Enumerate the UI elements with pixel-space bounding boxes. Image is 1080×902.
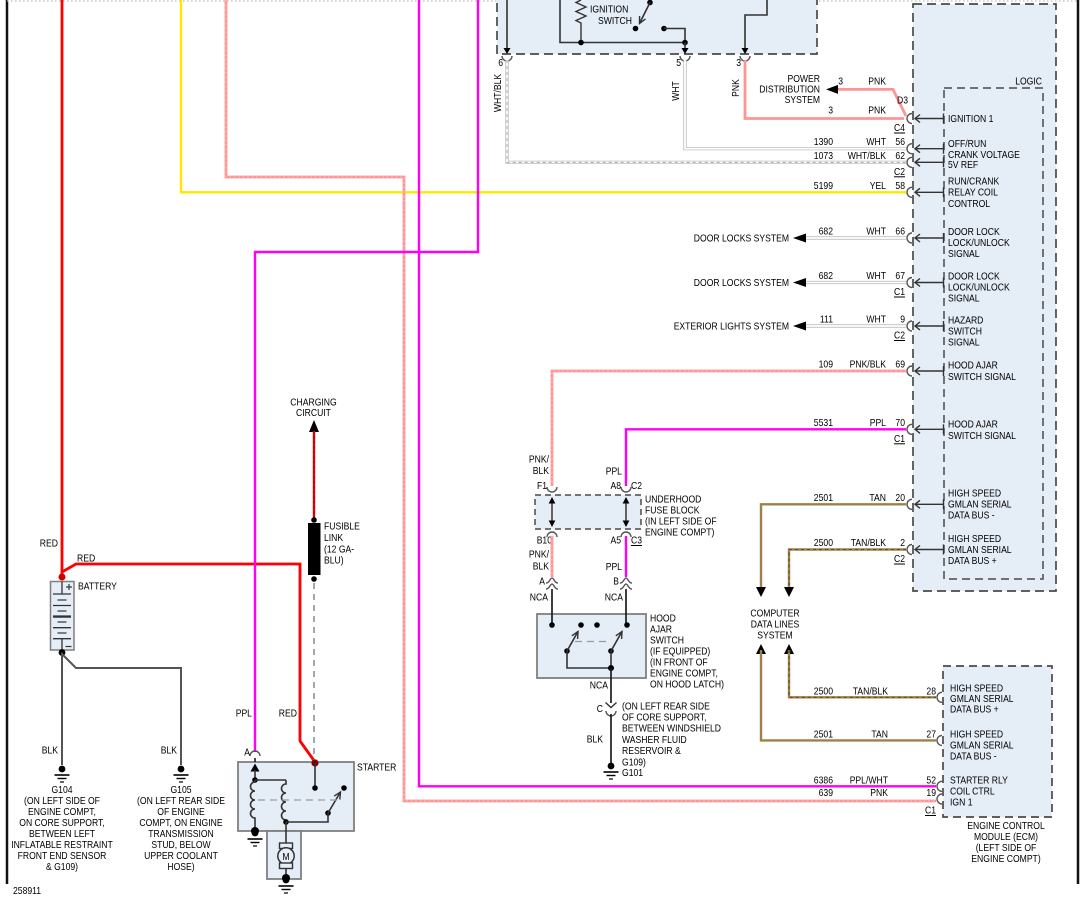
ECM pin 28 connector xyxy=(937,692,942,702)
battery box xyxy=(51,582,75,651)
wire YEL run/crank relay coil control 5199 xyxy=(181,0,906,192)
wire solenoid top to hold-in coil xyxy=(255,779,286,781)
wire TAN 2501 gmlan row 20 xyxy=(761,504,906,588)
node starter solenoid top junction xyxy=(252,777,258,783)
svg-text:M: M xyxy=(282,851,289,863)
wire RED/BLK to fusible link xyxy=(313,431,315,519)
svg-text:G101: G101 xyxy=(622,767,643,779)
arrow DOOR LOCKS SYSTEM row 67 xyxy=(793,278,806,287)
ground starter motor xyxy=(283,877,290,884)
wire WHT 682 door lock row 67 xyxy=(806,281,906,284)
wire NCA hood switch to connector C xyxy=(610,668,612,703)
svg-text:C1: C1 xyxy=(894,433,905,445)
svg-text:SIGNAL: SIGNAL xyxy=(948,248,980,260)
svg-text:F1: F1 xyxy=(537,480,547,492)
node hood switch common junction xyxy=(608,665,614,671)
svg-text:WHT: WHT xyxy=(866,314,886,326)
wire PPL 5531 hood ajar row 70 xyxy=(626,429,906,486)
svg-text:C2: C2 xyxy=(894,166,905,178)
svg-text:HOOD AJAR: HOOD AJAR xyxy=(948,419,998,431)
BCM pin 56 OFF/RUN xyxy=(907,144,912,154)
svg-text:G109): G109) xyxy=(622,757,646,769)
svg-text:BLK: BLK xyxy=(42,745,58,757)
arrow to POWER DISTRIBUTION SYSTEM xyxy=(826,85,838,94)
node starter battery junction xyxy=(311,759,318,766)
svg-text:C2: C2 xyxy=(631,480,642,492)
fuse block pin A8 C2 connector xyxy=(621,487,631,492)
node starter switch upper contact xyxy=(341,785,347,791)
starter box xyxy=(238,762,354,831)
underhood fuse block box xyxy=(535,495,641,529)
svg-text:C1: C1 xyxy=(894,286,905,298)
battery negative sign xyxy=(66,646,72,648)
svg-text:WHT: WHT xyxy=(866,136,886,148)
node starter switch feed contact xyxy=(312,785,318,791)
svg-text:RESERVOIR &: RESERVOIR & xyxy=(622,745,681,757)
svg-text:TAN/BLK: TAN/BLK xyxy=(853,685,888,697)
node battery negative terminal xyxy=(59,649,66,656)
BCM pin 58 RUN/CRANK relay xyxy=(907,187,912,197)
svg-text:EXTERIOR LIGHTS SYSTEM: EXTERIOR LIGHTS SYSTEM xyxy=(674,321,789,333)
starter switch blade to common xyxy=(286,813,328,822)
svg-text:3: 3 xyxy=(736,57,741,69)
svg-text:WHT/BLK: WHT/BLK xyxy=(492,74,504,112)
hood switch blade right xyxy=(608,648,614,654)
svg-text:STARTER: STARTER xyxy=(357,762,397,774)
BCM pin C4 IGNITION 1 connector xyxy=(907,114,912,124)
inline connector A hood switch xyxy=(546,578,558,583)
ground starter solenoid xyxy=(252,830,259,837)
fuse block pass-through arrow right xyxy=(625,501,627,523)
svg-text:ON HOOD LATCH): ON HOOD LATCH) xyxy=(650,679,724,691)
svg-text:NCA: NCA xyxy=(530,592,548,604)
svg-text:BLK: BLK xyxy=(587,734,603,746)
wire PNK circuit 3 from pin3 xyxy=(745,60,904,119)
hood switch blade left xyxy=(564,648,570,654)
svg-text:C4: C4 xyxy=(894,122,905,134)
svg-text:C2: C2 xyxy=(894,553,905,565)
svg-text:1073: 1073 xyxy=(814,150,833,162)
svg-text:DATA BUS -: DATA BUS - xyxy=(948,510,995,522)
BCM pin 66 DOOR LOCK xyxy=(907,233,912,243)
resistor ignition key-in resistor xyxy=(576,0,586,43)
svg-text:20: 20 xyxy=(895,492,905,504)
drawing frame top border xyxy=(7,0,1078,2)
BCM pin 70 HOOD AJAR C1 xyxy=(907,424,912,434)
ignition switch feed wire pin6 internal xyxy=(506,0,508,49)
svg-text:WHT: WHT xyxy=(866,226,886,238)
ECM pin 52 connector xyxy=(937,781,942,791)
svg-text:NCA: NCA xyxy=(605,592,623,604)
svg-text:TAN/BLK: TAN/BLK xyxy=(851,537,886,549)
svg-text:2500: 2500 xyxy=(814,685,833,697)
svg-text:RED: RED xyxy=(40,538,59,550)
node hood switch contact 2 xyxy=(578,622,584,628)
svg-text:2: 2 xyxy=(900,537,905,549)
svg-text:BLK: BLK xyxy=(533,465,549,477)
arrow EXTERIOR LIGHTS SYSTEM xyxy=(793,322,806,331)
wire PNK/BLK below fuse block xyxy=(551,536,554,577)
starter switch blade xyxy=(325,810,331,816)
wire PNK branch to power distribution xyxy=(832,89,906,116)
svg-text:BETWEEN WINDSHIELD: BETWEEN WINDSHIELD xyxy=(622,723,721,735)
arrow to charging circuit xyxy=(309,420,319,432)
BCM body control module box xyxy=(913,4,1056,591)
wire NCA to hood switch A xyxy=(551,589,553,625)
hood ajar switch box xyxy=(537,614,646,678)
wire TAN 2501 to ECM pin 27 xyxy=(761,650,936,740)
svg-text:6: 6 xyxy=(498,57,503,69)
svg-text:52: 52 xyxy=(926,774,936,786)
ground G101 xyxy=(608,763,615,770)
svg-text:682: 682 xyxy=(819,270,834,282)
svg-text:TAN: TAN xyxy=(871,728,888,740)
ignition switch module box xyxy=(497,0,817,54)
ignition switch left feed wire xyxy=(560,0,685,43)
svg-text:A: A xyxy=(244,747,250,759)
svg-text:PNK/: PNK/ xyxy=(529,454,549,466)
pin 6 connector xyxy=(502,56,512,61)
svg-text:C3: C3 xyxy=(631,535,642,547)
svg-text:67: 67 xyxy=(895,270,905,282)
starter solenoid hold-in coil xyxy=(282,780,287,822)
fuse block pass-through arrow left xyxy=(551,501,553,523)
svg-text:BLK: BLK xyxy=(533,561,549,573)
svg-text:PNK: PNK xyxy=(868,76,886,88)
svg-text:HOOD AJAR: HOOD AJAR xyxy=(948,360,998,372)
wire WHT 111 hazard row 9 xyxy=(806,324,906,327)
starter motor box xyxy=(267,831,301,879)
svg-text:PNK: PNK xyxy=(730,79,742,97)
wire TAN/BLK 2500 to ECM pin 28 xyxy=(789,650,936,697)
svg-text:5531: 5531 xyxy=(814,417,833,429)
svg-text:C2: C2 xyxy=(894,330,905,342)
svg-text:WHT: WHT xyxy=(866,270,886,282)
svg-text:BLK: BLK xyxy=(161,745,177,757)
svg-text:HOSE): HOSE) xyxy=(167,861,194,873)
wire PPL starter solenoid trunk xyxy=(255,0,478,752)
node hood switch contact A xyxy=(549,622,555,628)
svg-text:56: 56 xyxy=(895,136,905,148)
svg-text:B10: B10 xyxy=(537,535,552,547)
starter solenoid feed arrow xyxy=(254,758,256,762)
starter switch feed wire xyxy=(314,763,316,788)
svg-text:BATTERY: BATTERY xyxy=(78,581,117,593)
node fusible link bottom xyxy=(311,576,317,582)
svg-text:RED: RED xyxy=(279,708,298,720)
svg-text:PPL: PPL xyxy=(236,708,252,720)
wire dashed fusible link to starter xyxy=(313,583,315,760)
wire PNK ignition feed 639 trunk xyxy=(226,0,936,801)
node ignition switch run contact xyxy=(633,26,639,32)
svg-text:IGNITION: IGNITION xyxy=(590,4,628,16)
svg-text:LOGIC: LOGIC xyxy=(1015,76,1042,88)
svg-text:5V REF: 5V REF xyxy=(948,159,978,171)
node hold-in coil bottom junction xyxy=(283,819,289,825)
wire BLK battery to G104 xyxy=(61,653,63,766)
battery internal plates xyxy=(61,582,63,595)
wire RED branch to starter xyxy=(62,564,315,762)
fuse block pin F1 connector xyxy=(547,487,557,492)
svg-text:FUSIBLE: FUSIBLE xyxy=(324,521,360,533)
BCM pin 9 HAZARD C2 xyxy=(907,321,912,331)
node motor ground terminal xyxy=(282,874,290,882)
hood switch common wire xyxy=(567,651,611,668)
svg-text:LINK: LINK xyxy=(324,532,343,544)
ground G104 xyxy=(59,766,66,773)
fuse block pin B10 connector xyxy=(547,532,557,537)
svg-text:SYSTEM: SYSTEM xyxy=(785,94,820,106)
node hood switch contact 3 xyxy=(594,622,600,628)
wire NCA to hood switch B xyxy=(625,589,627,625)
node battery positive junction xyxy=(59,574,66,581)
svg-text:SYSTEM: SYSTEM xyxy=(757,630,792,642)
svg-text:C: C xyxy=(597,703,604,715)
svg-text:SIGNAL: SIGNAL xyxy=(948,337,980,349)
svg-text:PPL: PPL xyxy=(606,561,622,573)
wire RED battery feed vertical xyxy=(61,0,64,574)
svg-text:B: B xyxy=(613,576,619,588)
svg-text:PPL/WHT: PPL/WHT xyxy=(850,774,889,786)
BCM pin 62 connector C2 xyxy=(907,157,912,167)
LOGIC inner box xyxy=(944,88,1043,579)
battery positive sign xyxy=(66,586,72,588)
inline connector C xyxy=(606,703,617,708)
wire WHT 682 door lock row 66 xyxy=(806,236,906,239)
svg-text:PPL: PPL xyxy=(870,417,886,429)
svg-text:28: 28 xyxy=(926,685,936,697)
svg-text:NCA: NCA xyxy=(590,680,608,692)
svg-text:WHT: WHT xyxy=(670,81,682,101)
svg-text:639: 639 xyxy=(819,787,834,799)
BCM pin 2 GMLAN C2 xyxy=(907,545,912,555)
svg-text:66: 66 xyxy=(895,226,905,238)
svg-text:DATA BUS -: DATA BUS - xyxy=(950,751,997,763)
pin 5 connector xyxy=(680,56,690,61)
arrow computer data lines down right xyxy=(784,587,794,597)
svg-text:IGNITION 1: IGNITION 1 xyxy=(948,113,994,125)
svg-text:TAN: TAN xyxy=(869,492,886,504)
svg-text:ENGINE COMPT): ENGINE COMPT) xyxy=(971,853,1040,865)
svg-text:CONTROL: CONTROL xyxy=(948,198,990,210)
wire TAN/BLK 2500 gmlan row 2 xyxy=(789,550,906,589)
wire BLK connector C to G101 xyxy=(610,714,612,764)
svg-text:ENGINE COMPT): ENGINE COMPT) xyxy=(645,527,714,539)
svg-text:70: 70 xyxy=(895,417,905,429)
drawing frame left border xyxy=(6,0,9,884)
svg-text:58: 58 xyxy=(895,180,905,192)
BCM pin 67 DOOR LOCK C1 xyxy=(907,278,912,288)
svg-text:62: 62 xyxy=(895,150,905,162)
wire PPL/WHT starter relay control 6386 xyxy=(419,0,936,786)
node ignition switch start contact xyxy=(661,26,667,32)
ignition switch pin5 exit wire xyxy=(684,43,686,50)
ECM pin 27 connector xyxy=(937,735,942,745)
svg-text:2500: 2500 xyxy=(814,537,833,549)
BCM pin 20 GMLAN xyxy=(907,499,912,509)
svg-text:SIGNAL: SIGNAL xyxy=(948,293,980,305)
svg-text:258911: 258911 xyxy=(13,885,41,897)
node resistor to bus junction xyxy=(578,40,584,46)
svg-text:A8: A8 xyxy=(611,480,622,492)
motor M starter xyxy=(280,843,293,849)
svg-text:3: 3 xyxy=(828,105,833,117)
wire motor to ground xyxy=(285,869,287,878)
svg-text:69: 69 xyxy=(895,359,905,371)
svg-text:5199: 5199 xyxy=(814,180,833,192)
wire PPL below fuse block xyxy=(625,536,627,577)
svg-text:CIRCUIT: CIRCUIT xyxy=(296,407,331,419)
svg-text:PPL: PPL xyxy=(606,466,622,478)
svg-text:9: 9 xyxy=(900,314,905,326)
switch blade ignition contact xyxy=(647,0,653,5)
wire BLK battery to G105 xyxy=(62,654,181,765)
svg-text:WHT/BLK: WHT/BLK xyxy=(848,150,886,162)
wire coil to motor xyxy=(285,822,287,843)
arrow computer data lines up left xyxy=(756,644,766,654)
svg-text:PNK/: PNK/ xyxy=(529,549,549,561)
arrow computer data lines down left xyxy=(756,587,766,597)
svg-text:A: A xyxy=(539,576,545,588)
fusible link xyxy=(308,523,321,575)
svg-text:RUN/CRANK: RUN/CRANK xyxy=(948,176,999,188)
ECM engine control module box xyxy=(943,666,1052,817)
svg-text:BLU): BLU) xyxy=(324,555,344,567)
svg-text:SWITCH: SWITCH xyxy=(598,15,632,27)
starter mechanical link dashed xyxy=(258,799,338,801)
drawing frame right border xyxy=(1077,0,1080,884)
node hood switch contact B xyxy=(624,622,630,628)
ignition switch pin3 exit wire xyxy=(745,0,767,49)
svg-text:& G109): & G109) xyxy=(46,861,78,873)
starter connector A xyxy=(250,751,260,756)
svg-text:6386: 6386 xyxy=(814,774,833,786)
svg-text:PNK: PNK xyxy=(868,105,886,117)
node fusible link top xyxy=(311,517,317,523)
svg-text:DOOR LOCKS SYSTEM: DOOR LOCKS SYSTEM xyxy=(694,277,789,289)
svg-text:A5: A5 xyxy=(611,535,622,547)
wire PNK/BLK 109 hood ajar row 69 xyxy=(552,371,906,486)
svg-text:PNK: PNK xyxy=(870,787,888,799)
BCM pin 69 HOOD AJAR xyxy=(907,366,912,376)
svg-text:DATA BUS +: DATA BUS + xyxy=(950,704,999,716)
svg-text:SWITCH SIGNAL: SWITCH SIGNAL xyxy=(948,430,1016,442)
node starter solenoid ground terminal xyxy=(251,827,259,835)
arrow DOOR LOCKS SYSTEM row 66 xyxy=(793,234,806,243)
ECM pin 19 connector xyxy=(937,794,942,804)
svg-text:3: 3 xyxy=(838,76,843,88)
inline connector B hood switch xyxy=(620,578,632,583)
arrow computer data lines up right xyxy=(784,644,794,654)
hood switch mechanical link dashed xyxy=(575,641,607,643)
svg-text:IGN 1: IGN 1 xyxy=(950,797,973,809)
svg-text:5: 5 xyxy=(676,57,681,69)
ground G105 xyxy=(178,766,185,773)
svg-text:109: 109 xyxy=(819,359,834,371)
svg-text:D3: D3 xyxy=(897,95,908,107)
node pin5 bus junction xyxy=(682,40,688,46)
wire WHT/BLK 1073 pin6 to BCM xyxy=(507,60,906,162)
fuse block pin A5 C3 connector xyxy=(621,532,631,537)
svg-text:682: 682 xyxy=(819,226,834,238)
svg-text:DOOR LOCKS SYSTEM: DOOR LOCKS SYSTEM xyxy=(694,233,789,245)
svg-text:1390: 1390 xyxy=(814,136,833,148)
wire WHT 1390 pin5 to BCM xyxy=(685,60,906,149)
svg-text:DATA BUS +: DATA BUS + xyxy=(948,555,997,567)
svg-text:111: 111 xyxy=(820,314,833,326)
svg-text:SWITCH SIGNAL: SWITCH SIGNAL xyxy=(948,371,1016,383)
svg-text:2501: 2501 xyxy=(814,728,833,740)
svg-text:27: 27 xyxy=(926,728,936,740)
pin 3 connector xyxy=(740,56,750,61)
svg-text:C1: C1 xyxy=(925,805,936,817)
svg-text:YEL: YEL xyxy=(870,180,886,192)
svg-text:19: 19 xyxy=(926,787,936,799)
starter solenoid pull-in coil xyxy=(251,780,256,831)
svg-text:PNK/BLK: PNK/BLK xyxy=(850,359,886,371)
svg-text:2501: 2501 xyxy=(814,492,833,504)
svg-text:RED: RED xyxy=(77,553,96,565)
